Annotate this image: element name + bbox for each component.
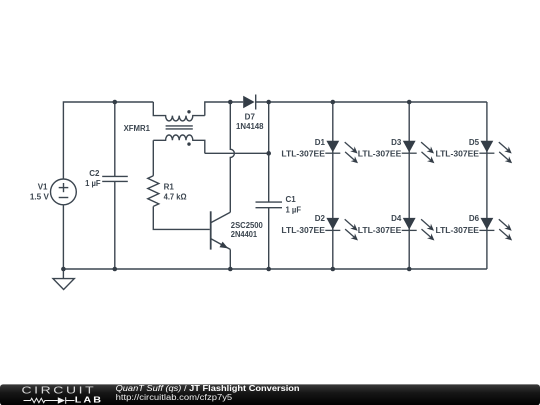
label R1 — [164, 183, 188, 202]
voltage source V1 — [51, 179, 77, 269]
label V1 — [30, 182, 50, 201]
label D4 — [358, 214, 402, 235]
svg-text:LAB: LAB — [75, 396, 103, 405]
svg-text:D5: D5 — [469, 138, 480, 147]
svg-text:LTL-307EE: LTL-307EE — [281, 150, 325, 159]
junction node secondary to C1 — [266, 151, 271, 156]
LED D5 — [479, 141, 512, 164]
svg-text:D1: D1 — [315, 138, 326, 147]
label D1 — [281, 138, 325, 158]
label C1 — [286, 195, 302, 215]
svg-text:LTL-307EE: LTL-307EE — [436, 150, 480, 159]
junction node bottom rail at emitter — [228, 267, 233, 272]
wire LED column 1 — [332, 102, 334, 269]
junction node top rail at D7 cathode — [266, 100, 271, 105]
junction node top rail at collector — [228, 100, 233, 105]
diode D7 — [243, 95, 256, 110]
label D5 — [436, 138, 480, 158]
svg-text:1N4148: 1N4148 — [236, 122, 264, 131]
svg-text:C1: C1 — [286, 195, 297, 204]
wire LED column 3 — [486, 102, 488, 269]
label D3 — [358, 138, 402, 158]
LED D4 — [402, 218, 435, 241]
LED D1 — [325, 141, 358, 164]
svg-text:C2: C2 — [89, 169, 100, 178]
junction node top rail at column 1 — [331, 100, 336, 105]
resistor R1 — [148, 176, 159, 207]
ground — [53, 269, 74, 290]
wire secondary left to R1 — [152, 140, 154, 176]
svg-text:D6: D6 — [469, 214, 480, 223]
svg-text:LTL-307EE: LTL-307EE — [281, 226, 325, 235]
capacitor C1 — [256, 102, 283, 269]
junction node top rail at C2 — [113, 100, 118, 105]
footer bar — [0, 384, 540, 405]
junction node bottom rail at column 2 — [407, 267, 412, 272]
wire emitter — [229, 249, 231, 269]
svg-text:1 µF: 1 µF — [286, 206, 302, 215]
svg-text:http://circuitlab.com/cfzp7y5: http://circuitlab.com/cfzp7y5 — [116, 393, 233, 402]
wire top rail right — [256, 101, 487, 103]
svg-text:R1: R1 — [164, 183, 175, 192]
svg-text:2SC2500: 2SC2500 — [231, 221, 264, 230]
svg-text:LTL-307EE: LTL-307EE — [358, 150, 402, 159]
svg-text:LTL-307EE: LTL-307EE — [436, 226, 480, 235]
junction node bottom rail at V1 — [61, 267, 66, 272]
svg-text:1.5 V: 1.5 V — [30, 193, 50, 202]
svg-text:XFMR1: XFMR1 — [124, 124, 151, 133]
LED D3 — [402, 141, 435, 164]
svg-text:D7: D7 — [245, 112, 256, 121]
label D6 — [436, 214, 480, 235]
transistor Q1 — [211, 211, 231, 249]
capacitor C2 — [102, 102, 128, 269]
junction node bottom rail at column 1 — [331, 267, 336, 272]
wire R1 to base — [153, 206, 210, 229]
junction node top rail at column 2 — [407, 100, 412, 105]
LED D2 — [325, 218, 358, 241]
label D7 1N4148 — [236, 112, 264, 130]
wire top rail mid — [205, 102, 243, 116]
svg-text:CIRCUIT: CIRCUIT — [22, 384, 97, 396]
CircuitLab logo — [22, 384, 104, 405]
label D2 — [281, 214, 325, 235]
wire secondary to node — [205, 152, 269, 154]
svg-text:D4: D4 — [391, 214, 402, 223]
wire bottom rail — [63, 268, 487, 270]
junction node bottom rail at C1 — [266, 267, 271, 272]
svg-text:4.7 kΩ: 4.7 kΩ — [164, 193, 188, 202]
label C2 — [85, 169, 101, 188]
wire LED column 2 — [408, 102, 410, 269]
svg-text:D3: D3 — [391, 138, 402, 147]
svg-text:LTL-307EE: LTL-307EE — [358, 226, 402, 235]
junction node bottom rail at C2 — [113, 267, 118, 272]
wire collector with hop — [230, 102, 234, 212]
LED D6 — [479, 218, 512, 241]
svg-text:1 µF: 1 µF — [85, 179, 101, 188]
svg-text:D2: D2 — [315, 214, 326, 223]
svg-text:QuanT Suff (qs) / JT Flashligh: QuanT Suff (qs) / JT Flashlight Conversi… — [116, 384, 300, 393]
transformer XFMR1 — [153, 102, 205, 153]
label Q1 2SC2500 2N4401 — [231, 221, 264, 239]
wire top rail left — [63, 102, 153, 179]
svg-text:2N4401: 2N4401 — [231, 230, 258, 239]
svg-text:V1: V1 — [38, 182, 48, 191]
